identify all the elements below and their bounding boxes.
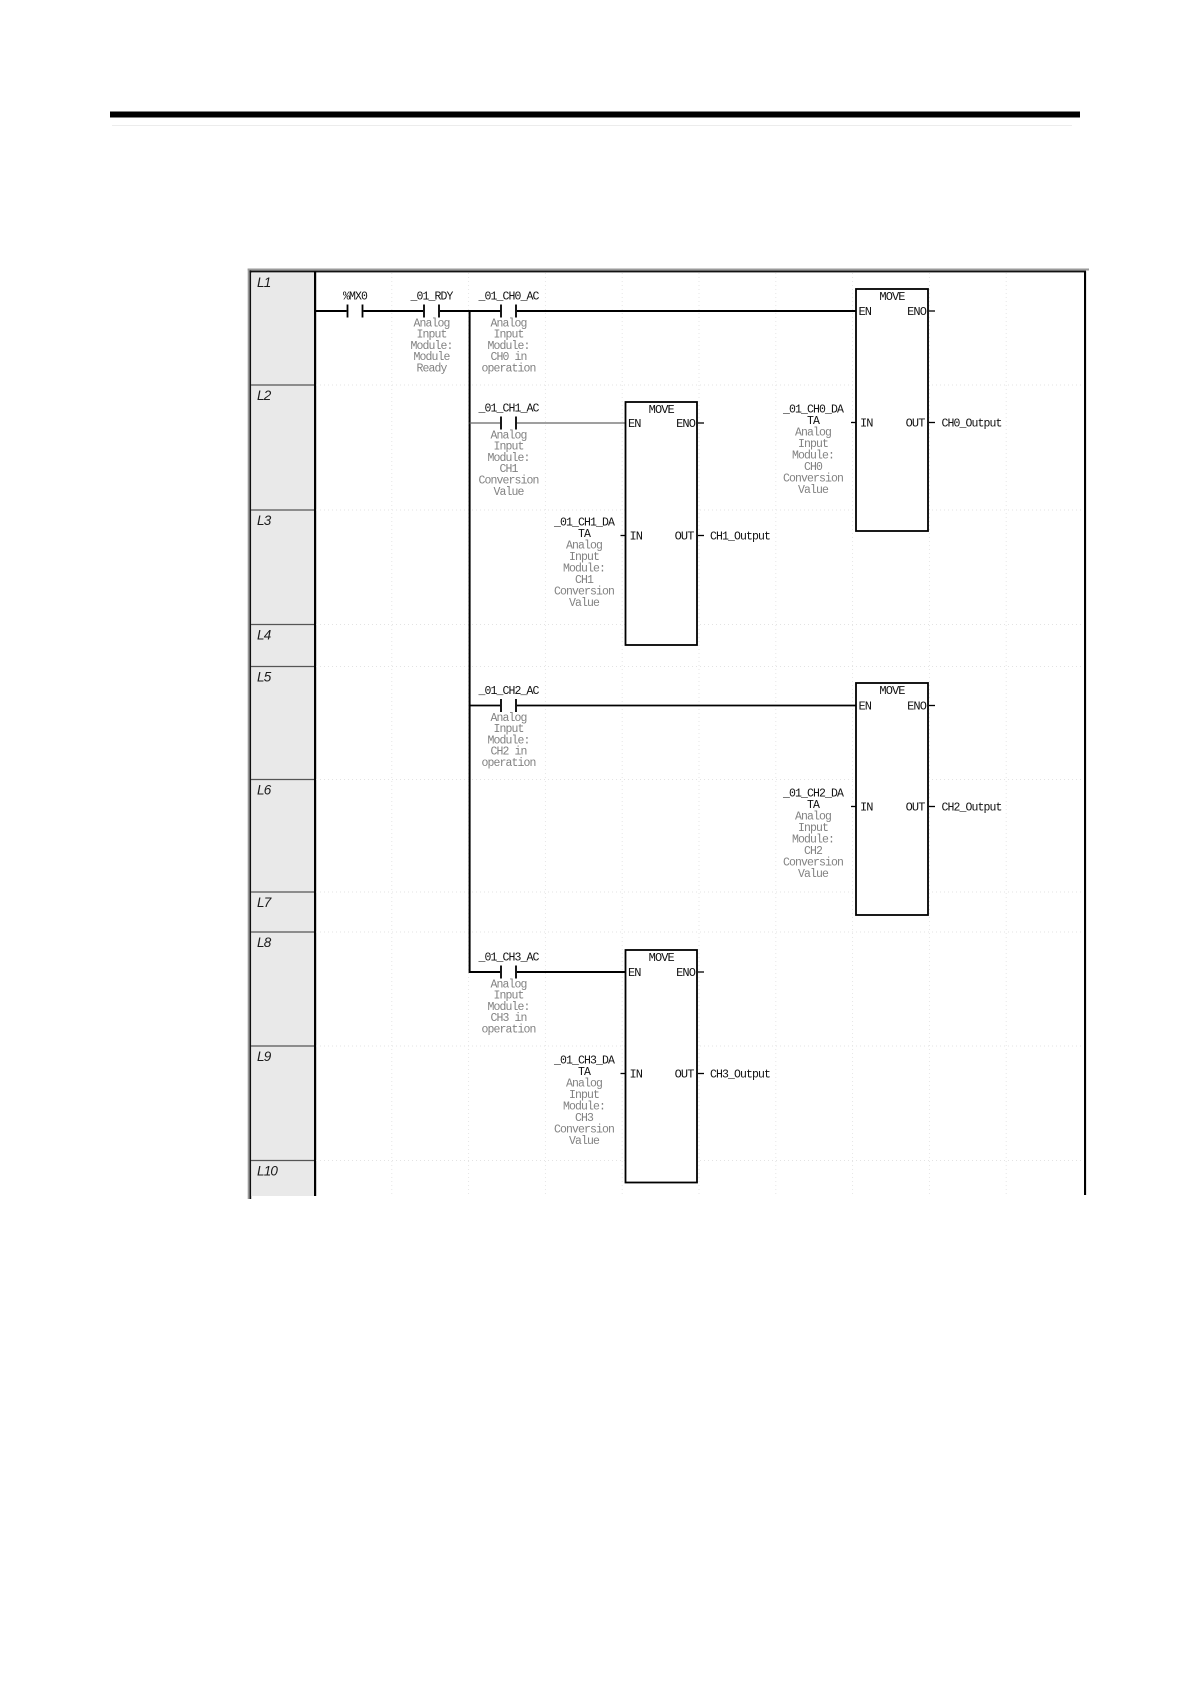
svg-text:CH2_Output: CH2_Output (942, 802, 1002, 815)
svg-text:L1: L1 (257, 275, 271, 290)
svg-text:IN: IN (860, 417, 873, 431)
svg-text:IN: IN (630, 1068, 643, 1082)
svg-text:L2: L2 (257, 388, 272, 403)
svg-text:ENO: ENO (907, 700, 927, 714)
svg-text:L5: L5 (257, 670, 272, 685)
svg-text:_01_CH0_AC: _01_CH0_AC (477, 291, 539, 304)
svg-text:EN: EN (628, 417, 641, 431)
svg-text:EN: EN (628, 966, 641, 980)
svg-text:L8: L8 (257, 935, 272, 950)
svg-text:L4: L4 (257, 628, 271, 643)
svg-text:Value: Value (493, 486, 524, 499)
svg-text:L9: L9 (257, 1049, 272, 1064)
svg-text:MOVE: MOVE (649, 951, 675, 965)
svg-text:ENO: ENO (907, 305, 927, 319)
svg-text:Value: Value (569, 597, 600, 610)
svg-text:MOVE: MOVE (879, 684, 905, 698)
svg-text:IN: IN (860, 801, 873, 815)
svg-text:MOVE: MOVE (649, 403, 675, 417)
svg-text:L6: L6 (257, 783, 272, 798)
svg-text:Ready: Ready (416, 363, 447, 376)
svg-text:_01_CH1_AC: _01_CH1_AC (477, 403, 539, 416)
svg-text:OUT: OUT (906, 801, 926, 815)
svg-text:OUT: OUT (675, 1068, 695, 1082)
svg-text:MOVE: MOVE (879, 290, 905, 304)
svg-text:operation: operation (481, 1024, 535, 1037)
svg-text:_01_CH2_AC: _01_CH2_AC (477, 685, 539, 698)
svg-text:CH3_Output: CH3_Output (710, 1069, 770, 1082)
svg-text:OUT: OUT (675, 530, 695, 544)
svg-text:Value: Value (798, 868, 829, 881)
svg-text:Value: Value (569, 1135, 600, 1148)
svg-text:%MX0: %MX0 (343, 291, 368, 304)
svg-text:CH0_Output: CH0_Output (942, 418, 1002, 431)
svg-text:L7: L7 (257, 895, 272, 910)
svg-text:Value: Value (798, 484, 829, 497)
svg-text:L10: L10 (257, 1164, 278, 1179)
svg-text:IN: IN (630, 530, 643, 544)
svg-text:OUT: OUT (906, 417, 926, 431)
svg-text:_01_CH3_AC: _01_CH3_AC (477, 952, 539, 965)
svg-text:operation: operation (481, 757, 535, 770)
svg-text:operation: operation (481, 363, 535, 376)
svg-text:EN: EN (859, 700, 872, 714)
svg-text:CH1_Output: CH1_Output (710, 531, 770, 544)
svg-text:L3: L3 (257, 513, 272, 528)
svg-text:EN: EN (859, 305, 872, 319)
svg-text:ENO: ENO (676, 417, 696, 431)
svg-text:ENO: ENO (676, 966, 696, 980)
svg-text:_01_RDY: _01_RDY (409, 291, 453, 304)
